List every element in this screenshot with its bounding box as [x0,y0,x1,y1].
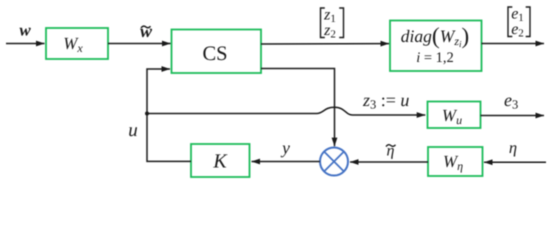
wire K output u feedback up to CS [147,69,191,161]
svg-text:w: w [19,20,31,39]
block Wu [428,102,481,129]
block K [191,144,250,177]
svg-text:y: y [280,138,290,158]
svg-text:w: w [140,21,153,41]
node junction dot on u wire [145,112,149,116]
block CS [172,30,262,74]
wire u branch with hop to Wu [147,107,425,115]
svg-text:i = 1,2: i = 1,2 [416,50,454,66]
node e1 e2 vector label [508,6,530,40]
wire eta input from right [484,161,546,163]
block W-eta [428,147,483,176]
svg-text:z3 := u: z3 := u [362,90,409,112]
wire W-eta output to mixer [350,161,428,163]
wire diag output to e1 e2 [482,43,545,45]
block Wx [46,28,108,59]
wire w input arrow [6,43,45,45]
block diag(Wzi) [390,21,482,72]
svg-text:u: u [128,120,138,141]
mixer multiplier circle [320,148,348,176]
svg-text:CS: CS [202,43,227,65]
wire CS top output to diag block [261,43,389,45]
wire mixer output y to K [252,161,320,163]
wire CS bottom output down to mixer [261,69,335,147]
wire Wx to CS [108,43,171,45]
svg-text:K: K [212,151,228,173]
wire Wu output e3 [481,115,545,117]
svg-text:η: η [509,138,517,157]
node z1 z2 vector label [321,7,344,41]
